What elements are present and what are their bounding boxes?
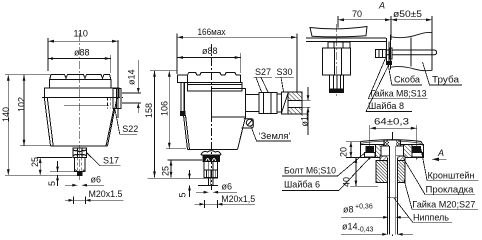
svg-text:ø14: ø14 (342, 221, 358, 231)
body tapered walls (44, 98, 50, 147)
svg-text:ø88: ø88 (74, 47, 90, 57)
centerline middle view (211, 44, 213, 190)
body bottom edge (51, 145, 108, 147)
svg-text:Шайба 6: Шайба 6 (284, 180, 320, 190)
svg-text:166мах: 166мах (198, 27, 226, 37)
horizontal centerline of boss (42, 96, 123, 98)
nipple bore (388, 146, 390, 235)
svg-text:5: 5 (47, 181, 57, 186)
device body cylinder (323, 48, 351, 75)
bracket bar side view (306, 37, 386, 39)
dim 40 (350, 157, 378, 186)
lid slab left view (50, 80, 111, 89)
hex nut middle view (201, 154, 221, 156)
bracket plate in section (361, 145, 424, 158)
centerline of device top-right (336, 24, 338, 96)
gland neck (246, 95, 260, 112)
dim 106 (166, 71, 186, 149)
thread M20 left view (75, 158, 85, 172)
svg-text:‘Земля’: ‘Земля’ (259, 131, 291, 141)
L-strip of bracket going down (386, 38, 388, 63)
svg-text:Труба: Труба (432, 75, 459, 85)
svg-text:25: 25 (30, 157, 40, 167)
svg-text:158: 158 (144, 103, 154, 118)
hatched zones of plate (376, 145, 385, 158)
lid hinge box (177, 75, 187, 82)
svg-text:ø6: ø6 (91, 175, 102, 185)
svg-text:ø14: ø14 (127, 69, 137, 85)
thread M20 middle (204, 162, 217, 178)
nipple centerline (392, 132, 394, 236)
dim 158 (148, 71, 219, 179)
ground screw lug (242, 119, 254, 128)
svg-text:Кронштейн: Кронштейн (428, 170, 475, 180)
lid bumps left view (50, 74, 111, 79)
svg-text:64±0,3: 64±0,3 (374, 117, 409, 127)
body top band middle (187, 82, 242, 84)
svg-text:А: А (437, 148, 444, 158)
bore dashed ø6 (78, 158, 82, 172)
dim 110 line (48, 38, 118, 118)
washer 8 (390, 48, 393, 59)
saddle clamp top (310, 27, 367, 37)
centerline left view (79, 33, 81, 180)
hidden bore dashed lines of boss (108, 98, 111, 109)
svg-text:ø50±5: ø50±5 (393, 9, 422, 19)
nipple bore channel through flange (389, 141, 396, 157)
svg-text:Шайба 8: Шайба 8 (368, 101, 404, 111)
svg-text:M20x1,5: M20x1,5 (221, 194, 255, 204)
nipple step (388, 196, 398, 198)
thread end chamfer left view (75, 169, 78, 171)
dim 25 middle (168, 160, 203, 177)
hex nut S17 front (73, 148, 87, 158)
svg-text:140: 140 (1, 107, 11, 122)
svg-text:Гайка М8;S13: Гайка М8;S13 (371, 88, 427, 98)
ground screw (246, 119, 253, 126)
lid side profile with bumps (187, 72, 240, 82)
capillary tube middle (209, 177, 213, 185)
faint facet line on taper (64, 105, 109, 107)
dim ø88 line (48, 55, 111, 73)
bracket arched bar (361, 140, 424, 146)
svg-text:Гайка М20;S27: Гайка М20;S27 (412, 199, 475, 209)
nipple walls (387, 158, 389, 235)
dim ø14 (122, 60, 141, 113)
body walls middle (184, 115, 188, 150)
terminal face box (212, 89, 246, 118)
flange collar white box (381, 146, 404, 156)
svg-text:S27: S27 (255, 67, 271, 77)
svg-text:110: 110 (74, 28, 88, 38)
bolt head dark blocks (366, 147, 374, 153)
capillary tube tip left view (78, 172, 82, 176)
svg-text:-0,43: -0,43 (358, 226, 374, 233)
nut M20 S27 in section (376, 161, 405, 183)
device lower tube (330, 75, 344, 93)
nipple flange cross-hatch in bracket zone (384, 140, 401, 146)
nipple tube white channel (388, 156, 398, 235)
svg-text:S22: S22 (122, 124, 138, 134)
svg-text:70: 70 (352, 9, 362, 19)
dim ø11 (303, 87, 311, 135)
svg-text:ø6: ø6 (222, 181, 233, 191)
body top band (44, 88, 119, 98)
side boss (ø14) (113, 89, 121, 109)
body bottom middle (188, 149, 238, 151)
svg-text:Скоба: Скоба (394, 75, 420, 85)
svg-text:ø88: ø88 (202, 46, 218, 56)
svg-text:102: 102 (17, 97, 27, 112)
svg-text:5: 5 (178, 192, 188, 197)
hinge strap (180, 82, 182, 114)
svg-text:M20x1.5: M20x1.5 (89, 189, 123, 199)
svg-text:106: 106 (160, 101, 170, 116)
M8 nut on stud (376, 50, 387, 58)
dim 20 (346, 142, 361, 158)
gland nut S30 (282, 92, 289, 114)
svg-text:Ниппель: Ниппель (413, 212, 449, 222)
svg-text:Прокладка: Прокладка (426, 184, 474, 194)
pipe vertical with break lines (390, 35, 392, 70)
bolt slot holes (365, 153, 376, 158)
dim 5 left view (50, 161, 74, 186)
dim 102 (20, 75, 50, 146)
gland seal washer with ø11 hole (288, 92, 302, 114)
svg-text:А: А (378, 0, 385, 10)
gland ring (277, 94, 281, 112)
collar under bar (328, 42, 350, 48)
svg-text:ø8: ø8 (343, 205, 354, 215)
gasket thin layer (380, 156, 405, 161)
svg-text:+0,36: +0,36 (355, 204, 373, 211)
svg-text:S17: S17 (103, 155, 119, 165)
svg-text:S30: S30 (277, 67, 293, 77)
stud rod through pipe (376, 50, 437, 55)
dim 140 (5, 75, 77, 176)
bolt M6 axes with arrows (369, 125, 371, 155)
dim 25 left view (37, 158, 72, 176)
dim 5 middle (190, 170, 219, 197)
svg-text:Болт М6;S10: Болт М6;S10 (284, 166, 336, 176)
svg-text:20: 20 (339, 147, 349, 157)
svg-text:25: 25 (161, 166, 171, 176)
gland hex S27 (259, 92, 277, 113)
svg-text:ø11: ø11 (300, 112, 310, 127)
